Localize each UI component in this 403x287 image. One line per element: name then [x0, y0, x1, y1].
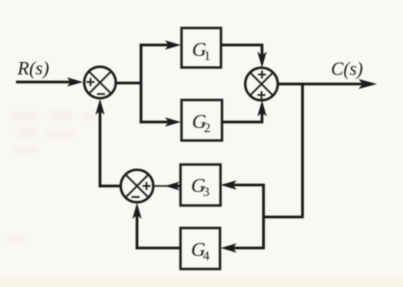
S1 minus sign: [97, 93, 105, 95]
svg-text:C(s): C(s): [331, 60, 363, 80]
wire branch vertical: [140, 44, 143, 123]
block G2: [182, 100, 223, 141]
S2 lower plus sign: [258, 91, 266, 99]
wire into block G3: [221, 180, 265, 189]
summing junction S2: [245, 68, 278, 101]
summing junction S3: [121, 170, 154, 203]
summing junction S1: [84, 67, 116, 99]
wire into block G2: [140, 117, 181, 126]
wire feedback vertical between G3 and G4 inputs: [262, 184, 265, 249]
S1 plus sign: [87, 78, 95, 86]
block G1: [182, 28, 222, 68]
svg-text:4: 4: [203, 248, 210, 263]
S3 minus sign: [132, 196, 140, 198]
block G4: [181, 228, 221, 269]
wire G3 output into summer S3: [155, 182, 181, 191]
svg-text:1: 1: [204, 48, 211, 63]
svg-text:2: 2: [204, 120, 211, 135]
wire S2 output with C(s) arrow: [278, 79, 377, 89]
wire feedback tap down from output: [263, 83, 304, 217]
S3 plus sign: [143, 182, 151, 190]
wire G1 output to summer S2 top: [221, 44, 267, 68]
wire S1 output to branch point: [116, 82, 142, 85]
block G3: [181, 165, 221, 206]
wire G2 output to summer S2 bottom: [222, 100, 267, 123]
wire R(s) input arrow into summer S1: [16, 77, 83, 86]
wire G4 output to summer S3 bottom: [132, 203, 180, 249]
svg-text:3: 3: [203, 184, 210, 199]
S2 upper plus sign: [258, 71, 266, 79]
wire S3 output to summer S1 bottom: [95, 99, 120, 187]
wire into block G1: [140, 40, 181, 49]
svg-text:R(s): R(s): [17, 59, 50, 80]
wire into block G4: [221, 243, 265, 252]
